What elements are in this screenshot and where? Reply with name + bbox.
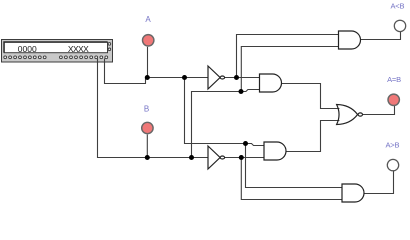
wire AND U5 output to A&lt;B pin bbox=[361, 31, 401, 39]
wire notB down to AND U7 bottom pin bbox=[241, 158, 342, 200]
output pin A&lt;B bbox=[394, 20, 405, 31]
junction node B/up bbox=[239, 89, 244, 94]
input pin A bbox=[143, 35, 154, 46]
inverter U2 bbox=[208, 146, 225, 169]
wire input B stub bbox=[146, 135, 148, 158]
wire net B from word generator bbox=[98, 58, 209, 158]
wire AND U4 output to NOR U6 bottom pin bbox=[286, 121, 339, 152]
wire input A stub bbox=[147, 47, 149, 78]
word generator display bbox=[4, 42, 107, 53]
svg-text:XXXX: XXXX bbox=[68, 44, 89, 54]
input pin B bbox=[142, 122, 153, 133]
wire A rail jog into AND U4 top pin bbox=[246, 144, 265, 146]
junction node A/input bbox=[145, 75, 150, 80]
svg-text:B: B bbox=[144, 105, 149, 114]
word generator terminals right group bbox=[60, 56, 108, 59]
output pin A&gt;B bbox=[387, 159, 398, 170]
AND gate U4 bbox=[264, 142, 286, 160]
wire A rail down to AND U7 top pin bbox=[246, 144, 343, 188]
NOR gate U6 bbox=[337, 105, 363, 125]
junction node B/branch bbox=[189, 155, 194, 160]
junction node B/input bbox=[145, 155, 150, 160]
wire AND U7 output to A&gt;B pin bbox=[364, 171, 394, 194]
inverter U1 bbox=[208, 66, 225, 89]
word generator XWG1 body bbox=[2, 40, 113, 63]
AND gate U3 bbox=[260, 74, 282, 92]
wire net A from word generator bbox=[105, 58, 146, 84]
wire B up to AND U5 bottom pin bbox=[241, 47, 338, 92]
word generator terminals left group bbox=[4, 56, 46, 59]
wire NOR U6 output to A=B pin bbox=[363, 106, 395, 115]
svg-text:A>B: A>B bbox=[386, 140, 400, 149]
wire B branch up to node bbox=[192, 92, 242, 158]
wire inverter U2 output row bbox=[225, 157, 264, 159]
wire A branch down to lower rail bbox=[185, 78, 246, 144]
svg-text:A<B: A<B bbox=[391, 2, 405, 11]
wire notA up to AND U5 top pin bbox=[237, 35, 339, 78]
wire terminal stub 1 bbox=[97, 59, 99, 64]
wire inverter U1 output row bbox=[225, 77, 260, 79]
svg-text:A: A bbox=[145, 15, 151, 24]
junction node notB bbox=[239, 155, 244, 160]
wire AND U3 output to NOR U6 top pin bbox=[282, 84, 340, 109]
wire B node jog into AND U3 bottom pin bbox=[241, 90, 260, 92]
junction node A rail bbox=[243, 141, 248, 146]
svg-text:A=B: A=B bbox=[387, 75, 401, 84]
svg-text:0000: 0000 bbox=[18, 44, 37, 54]
junction node notA bbox=[234, 75, 239, 80]
word generator side terminals R T bbox=[108, 43, 111, 51]
wire A row to inverter U1 bbox=[146, 77, 209, 79]
AND gate U5 (A&lt;B) bbox=[339, 31, 361, 49]
output pin A=B bbox=[388, 94, 399, 105]
wire terminal stub 2 bbox=[104, 59, 106, 64]
AND gate U7 (A&gt;B) bbox=[342, 184, 364, 202]
junction node A/branch bbox=[182, 75, 187, 80]
